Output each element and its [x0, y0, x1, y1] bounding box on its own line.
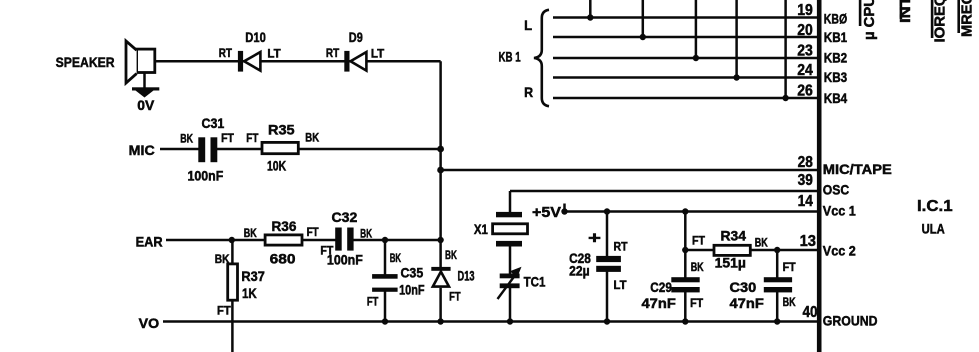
svg-text:IOREQ: IOREQ — [932, 0, 949, 43]
svg-text:23: 23 — [797, 43, 813, 60]
svg-text:10K: 10K — [267, 158, 286, 174]
svg-text:C31: C31 — [202, 115, 225, 131]
svg-text:22µ: 22µ — [569, 263, 590, 279]
svg-text:BK: BK — [691, 260, 704, 274]
svg-text:+: + — [588, 229, 601, 248]
svg-text:R34: R34 — [721, 228, 747, 244]
svg-text:20: 20 — [797, 22, 813, 39]
svg-text:FT: FT — [367, 294, 379, 308]
svg-text:BK: BK — [180, 131, 193, 145]
svg-text:R35: R35 — [268, 122, 295, 138]
svg-text:Vcc 1: Vcc 1 — [823, 203, 856, 219]
svg-text:24: 24 — [797, 62, 813, 79]
svg-text:C29: C29 — [650, 279, 672, 295]
svg-text:KB1: KB1 — [824, 29, 848, 45]
svg-text:KB3: KB3 — [824, 69, 848, 85]
svg-text:INT: INT — [897, 0, 914, 23]
svg-text:D13: D13 — [458, 268, 475, 284]
svg-text:R: R — [524, 84, 533, 100]
svg-text:MREQ: MREQ — [959, 0, 976, 37]
svg-text:14: 14 — [798, 193, 813, 210]
svg-text:BK: BK — [305, 131, 319, 145]
svg-text:LT: LT — [614, 278, 628, 292]
svg-text:µ CPU: µ CPU — [861, 0, 878, 40]
svg-text:D9: D9 — [349, 29, 363, 45]
svg-text:SPEAKER: SPEAKER — [56, 54, 115, 70]
svg-text:R37: R37 — [241, 268, 265, 284]
svg-text:28: 28 — [798, 154, 813, 171]
svg-text:R36: R36 — [272, 218, 297, 234]
svg-text:BK: BK — [755, 236, 768, 250]
svg-text:FT: FT — [692, 233, 706, 247]
svg-text:MIC/TAPE: MIC/TAPE — [823, 161, 892, 177]
svg-text:40: 40 — [803, 304, 818, 321]
svg-text:OSC: OSC — [823, 182, 849, 198]
svg-text:13: 13 — [800, 233, 816, 250]
svg-text:151µ: 151µ — [715, 255, 746, 271]
svg-text:FT: FT — [307, 225, 320, 239]
svg-text:ULA: ULA — [922, 220, 945, 236]
svg-text:0V: 0V — [137, 97, 155, 113]
svg-text:BK: BK — [244, 226, 257, 240]
svg-text:19: 19 — [797, 2, 813, 19]
svg-text:KB2: KB2 — [824, 50, 848, 66]
svg-text:I.C.1: I.C.1 — [917, 198, 953, 215]
svg-text:39: 39 — [798, 172, 813, 189]
svg-text:C32: C32 — [332, 209, 358, 225]
svg-text:KBØ: KBØ — [824, 10, 847, 26]
svg-text:RT: RT — [614, 240, 629, 254]
svg-text:C35: C35 — [401, 265, 424, 281]
svg-text:VO: VO — [139, 315, 160, 331]
svg-text:10nF: 10nF — [399, 282, 425, 298]
svg-text:LT: LT — [371, 47, 385, 61]
svg-text:LT: LT — [267, 47, 281, 61]
svg-text:EAR: EAR — [136, 233, 163, 249]
svg-text:BK: BK — [360, 227, 372, 241]
svg-text:BK: BK — [445, 248, 457, 262]
svg-text:C30: C30 — [730, 279, 757, 295]
svg-text:100nF: 100nF — [188, 167, 224, 183]
svg-text:GROUND: GROUND — [823, 313, 878, 329]
svg-text:FT: FT — [783, 260, 797, 274]
svg-text:FT: FT — [246, 131, 259, 145]
svg-text:680: 680 — [270, 251, 296, 267]
svg-text:BK: BK — [215, 252, 230, 266]
svg-text:47nF: 47nF — [642, 295, 677, 311]
svg-text:Vcc 2: Vcc 2 — [823, 243, 856, 259]
svg-text:+5V: +5V — [532, 204, 561, 221]
svg-text:MIC: MIC — [129, 142, 155, 158]
svg-text:L: L — [524, 17, 532, 33]
svg-text:D10: D10 — [245, 29, 266, 45]
svg-text:KB 1: KB 1 — [499, 48, 521, 64]
svg-text:FT: FT — [217, 304, 231, 318]
svg-text:FT: FT — [449, 289, 461, 303]
svg-text:KB4: KB4 — [824, 90, 848, 106]
svg-text:RT: RT — [219, 46, 233, 60]
svg-text:BK: BK — [390, 251, 402, 265]
svg-text:47nF: 47nF — [730, 295, 765, 311]
svg-text:X1: X1 — [474, 221, 488, 237]
svg-text:100nF: 100nF — [327, 251, 363, 267]
svg-text:FT: FT — [690, 296, 704, 310]
svg-text:RT: RT — [326, 46, 340, 60]
svg-text:BK: BK — [783, 295, 796, 309]
svg-text:TC1: TC1 — [524, 274, 546, 290]
svg-text:1K: 1K — [242, 285, 257, 301]
svg-text:FT: FT — [221, 131, 234, 145]
svg-text:26: 26 — [797, 82, 813, 99]
